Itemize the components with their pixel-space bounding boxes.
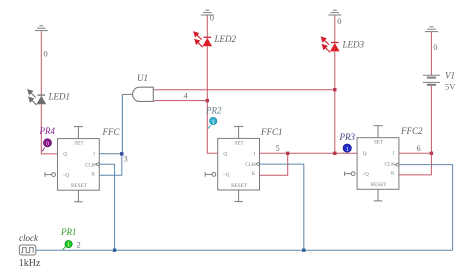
clock source V2 [19,245,35,255]
svg-text:CLK: CLK [245,162,256,168]
wire FFC1 CLK to clock rail [260,164,304,250]
LED LED3 (red / on) [321,37,339,52]
SET pin stub [77,127,79,139]
ground GND1 (top left) [35,26,48,31]
wire U1 top input (to LED3 net) [154,89,335,91]
SET pin stub [238,126,240,138]
junction (LED3 / U1 top input) [333,88,336,91]
svg-text:~Q: ~Q [223,172,230,178]
CLK edge-trigger arrow [395,163,399,167]
svg-text:Q: Q [63,152,67,158]
junction (FFC1 J tie) [286,152,289,155]
svg-text:K: K [391,170,395,176]
wire U1 bottom input (net 4) [154,100,208,102]
junction (FFC CLK / rail) [113,249,116,252]
svg-text:0: 0 [337,16,341,26]
LED LED2 (red / on) [194,32,212,47]
wire V1 to FFC2 J (net 6) [430,86,432,154]
probe PR1 [63,241,72,250]
wire J-K tie (net 3) [99,154,122,176]
RESET pin stub [238,190,240,202]
wire FFC1 J-K tie [260,153,288,175]
svg-text:0: 0 [433,42,437,52]
junction (LED3 / net 5) [333,152,336,155]
wire GND1 to LED1 cathode [40,31,42,95]
svg-text:~Q: ~Q [362,172,369,178]
flip-flop FFC1 [205,126,259,201]
svg-text:CLK: CLK [385,161,396,167]
~Q pin stub with bubble [52,173,56,177]
flip-flop FFC [45,127,99,202]
wire FFC CLK to clock rail [99,164,114,250]
svg-text:SET: SET [234,140,244,146]
LED LED1 (grey / off) [28,90,46,105]
svg-text:0: 0 [210,12,214,22]
CLK edge-trigger arrow [256,162,260,166]
svg-text:2: 2 [77,240,81,250]
AND gate U1 (mirrored, inputs right) [133,87,154,101]
svg-text:clock: clock [19,233,39,243]
svg-text:6: 6 [417,143,421,153]
svg-text:CLK: CLK [85,162,96,168]
wire LED1 anode down to FFC Q [41,104,57,154]
svg-text:K: K [91,171,95,177]
junction (FFC1 CLK / rail) [302,249,305,252]
svg-text:FFC: FFC [102,127,121,137]
svg-text:LED2: LED2 [214,34,237,44]
wire clock rail [36,249,453,251]
svg-text:1: 1 [67,243,70,249]
wire FFC1 J to FFC2 Q (net 5) [260,152,358,154]
svg-text:RESET: RESET [371,182,388,188]
svg-text:0: 0 [46,142,49,148]
svg-text:PR3: PR3 [339,132,356,142]
wire GND2 to LED2 [206,15,208,37]
RESET pin stub [377,189,379,201]
svg-text:RESET: RESET [71,183,88,189]
svg-text:U1: U1 [137,73,148,83]
svg-text:1: 1 [346,147,349,153]
probe PR4 [42,139,52,152]
~Q pin stub with bubble [351,172,355,176]
svg-text:3: 3 [124,154,128,164]
svg-text:LED3: LED3 [342,40,365,50]
ground GND2 (above LED2) [201,10,214,15]
RESET pin stub [77,190,79,202]
wire GND4 to V1 [430,32,432,75]
SET pin stub [377,126,379,138]
wire LED2 anode down to FFC1 Q [207,46,217,153]
svg-text:SET: SET [74,141,84,147]
probe PR3 [342,144,351,153]
wire FFC2 J line [399,152,432,154]
wire FFC J to junction [99,153,122,155]
svg-text:RESET: RESET [231,183,248,189]
CLK edge-trigger arrow [95,162,99,166]
svg-text:PR4: PR4 [39,126,56,136]
svg-text:Q: Q [223,152,227,158]
junction (V1 / FFC2 J) [430,152,433,155]
wire LED3 anode down to net 5 [334,51,336,153]
flip-flop FFC2 [345,126,399,201]
svg-text:1: 1 [212,120,215,126]
svg-text:FFC1: FFC1 [260,127,283,137]
wire U1 output stub [122,93,132,95]
battery V1 [423,75,440,85]
svg-text:5: 5 [276,143,280,153]
svg-text:J: J [392,151,394,157]
probe PR2 [208,117,217,128]
svg-text:0: 0 [44,49,48,59]
svg-text:FFC2: FFC2 [400,126,423,136]
svg-text:K: K [252,171,256,177]
ground GND3 (above LED3) [328,10,341,15]
svg-text:~Q: ~Q [63,172,70,178]
junction (gate output / J / K) [120,152,123,155]
svg-text:Q: Q [363,151,367,157]
svg-text:1kHz: 1kHz [19,258,41,269]
wire U1 output down to FFC J junction [121,94,123,153]
svg-text:5V: 5V [445,82,456,92]
svg-text:PR1: PR1 [60,227,77,237]
~Q pin stub with bubble [212,173,216,177]
svg-text:J: J [253,151,255,157]
svg-text:V1: V1 [445,71,455,81]
ground GND4 (above V1) [425,27,438,32]
svg-text:SET: SET [374,140,384,146]
wire FFC2 J-K tie [399,153,432,175]
svg-text:LED1: LED1 [48,92,71,102]
junction (LED2 / net 4) [206,99,209,102]
svg-text:PR2: PR2 [205,106,222,116]
wire GND3 to LED3 [334,15,336,42]
svg-text:J: J [93,152,95,158]
wire FFC2 CLK to clock rail [399,165,453,251]
